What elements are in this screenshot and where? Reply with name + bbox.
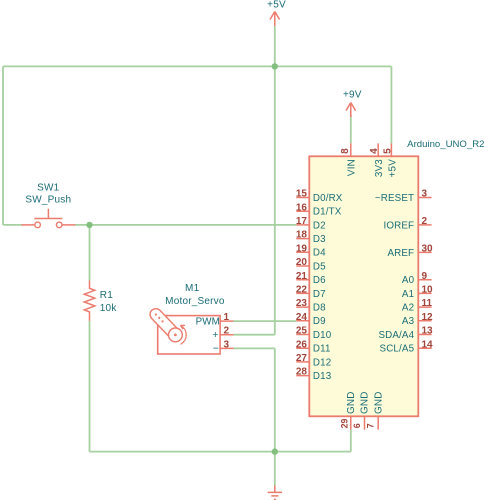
svg-text:3V3: 3V3 (374, 159, 385, 177)
Arduino left pin numbers (296, 189, 308, 378)
wire servo plus horizontal (233, 334, 275, 336)
Arduino right pin stubs (418, 198, 431, 349)
junction node switch/R1 (86, 222, 92, 228)
Arduino right pin names (375, 193, 415, 355)
wire servo PWM to D9 (233, 320, 296, 322)
wire bottom horizontal GND rail (90, 451, 351, 453)
svg-text:D7: D7 (313, 289, 326, 300)
Arduino top pin stubs (351, 143, 392, 156)
svg-text:R1: R1 (100, 290, 113, 301)
svg-text:10k: 10k (100, 303, 118, 314)
power symbol +5V (270, 12, 280, 27)
Arduino right pin numbers (422, 189, 434, 351)
servo M1 Motor_Servo (150, 309, 233, 355)
svg-text:11: 11 (422, 298, 433, 309)
svg-text:4: 4 (369, 148, 380, 154)
svg-text:D11: D11 (313, 344, 331, 355)
Arduino left pin stubs (296, 198, 309, 376)
svg-text:SW1: SW1 (37, 182, 60, 193)
svg-text:A2: A2 (402, 303, 414, 314)
svg-text:D3: D3 (313, 234, 326, 245)
svg-text:16: 16 (296, 202, 308, 213)
svg-text:+5V: +5V (387, 159, 398, 178)
servo icon rotation arc (180, 325, 186, 344)
wire GND rail to ground symbol (274, 452, 276, 487)
IC Arduino_UNO_R2 body (309, 156, 418, 416)
svg-text:−: − (213, 343, 219, 355)
servo icon shaft circle (169, 328, 183, 342)
svg-text:2: 2 (224, 326, 230, 337)
svg-text:D4: D4 (313, 248, 326, 259)
svg-text:D5: D5 (313, 261, 326, 272)
Arduino bottom pin numbers (340, 419, 376, 429)
svg-text:PWM: PWM (196, 317, 220, 328)
svg-text:~RESET: ~RESET (375, 193, 414, 204)
svg-text:14: 14 (422, 339, 434, 350)
svg-text:28: 28 (296, 367, 308, 378)
svg-text:GND: GND (346, 391, 357, 414)
svg-text:29: 29 (340, 419, 350, 429)
power symbol +9V (346, 103, 356, 117)
wire +5V rail to pin 5 (390, 66, 392, 143)
servo pin stubs 1,2,3 (220, 321, 233, 348)
wire +9V to VIN pin 8 (350, 115, 352, 143)
svg-text:D13: D13 (313, 371, 332, 382)
wire junction to R1 top (89, 225, 91, 281)
junction node GND rail (272, 448, 278, 454)
Arduino bottom pin stubs (351, 416, 378, 429)
svg-text:21: 21 (296, 271, 308, 282)
svg-text:GND: GND (360, 391, 371, 414)
wire R1 bottom down (89, 321, 91, 452)
svg-text:9: 9 (422, 271, 428, 282)
svg-text:AREF: AREF (387, 248, 414, 259)
switch SW1 SW_Push (21, 209, 75, 228)
svg-text:GND: GND (373, 391, 384, 414)
Arduino left pin names (313, 193, 343, 382)
svg-text:A3: A3 (402, 316, 415, 327)
svg-text:3: 3 (422, 189, 428, 200)
svg-text:15: 15 (296, 189, 308, 200)
svg-text:5: 5 (382, 148, 393, 154)
svg-text:SCL/A5: SCL/A5 (380, 344, 415, 355)
svg-text:IOREF: IOREF (384, 220, 415, 231)
wire servo minus down to GND rail (274, 348, 276, 451)
Arduino top pin names (347, 159, 399, 178)
wire switch to D2 (75, 224, 296, 226)
svg-text:12: 12 (422, 312, 434, 323)
svg-text:D2: D2 (313, 220, 326, 231)
svg-text:SDA/A4: SDA/A4 (378, 330, 414, 341)
svg-text:D10: D10 (313, 330, 332, 341)
wire +5V symbol stem (274, 26, 276, 66)
svg-text:VIN: VIN (347, 159, 358, 176)
servo icon arm (150, 309, 181, 341)
svg-text:D6: D6 (313, 275, 326, 286)
svg-text:7: 7 (366, 423, 376, 428)
svg-text:8: 8 (340, 148, 351, 154)
wire to switch left pin (3, 224, 22, 226)
wire servo minus horizontal (233, 347, 275, 349)
Arduino top pin numbers (340, 148, 393, 154)
svg-text:2: 2 (422, 216, 428, 227)
svg-text:18: 18 (296, 230, 308, 241)
svg-text:26: 26 (296, 339, 308, 350)
svg-text:Motor_Servo: Motor_Servo (165, 296, 225, 307)
junction node +5V rail (272, 63, 278, 69)
svg-text:A0: A0 (402, 275, 415, 286)
wire +5V vertical to servo plus (274, 66, 276, 334)
svg-text:17: 17 (296, 216, 308, 227)
wire left vertical (2, 66, 4, 225)
ground (268, 486, 282, 500)
svg-text:20: 20 (296, 257, 308, 268)
svg-text:3: 3 (224, 339, 230, 350)
svg-text:+: + (212, 329, 218, 341)
svg-text:Arduino_UNO_R2: Arduino_UNO_R2 (407, 139, 484, 150)
svg-text:D8: D8 (313, 303, 326, 314)
svg-text:6: 6 (352, 423, 362, 428)
svg-text:D12: D12 (313, 357, 331, 368)
wire GND pin 29 drop (350, 430, 352, 452)
svg-text:30: 30 (422, 244, 434, 255)
svg-text:+5V: +5V (267, 0, 286, 10)
svg-text:13: 13 (422, 326, 434, 337)
svg-text:A1: A1 (402, 289, 414, 300)
svg-text:10: 10 (422, 285, 434, 296)
svg-text:SW_Push: SW_Push (25, 195, 71, 206)
svg-text:19: 19 (296, 243, 308, 254)
svg-text:22: 22 (296, 285, 308, 296)
svg-text:27: 27 (296, 353, 308, 364)
wire top horizontal +5V rail (3, 65, 391, 67)
svg-text:D0/RX: D0/RX (313, 193, 343, 204)
svg-text:23: 23 (296, 298, 308, 309)
Arduino bottom pin names (346, 391, 384, 414)
svg-text:25: 25 (296, 326, 308, 337)
resistor R1 10k (84, 281, 95, 321)
servo icon arm dots (155, 313, 157, 315)
svg-text:D1/TX: D1/TX (313, 207, 342, 218)
svg-text:24: 24 (296, 312, 308, 323)
svg-text:M1: M1 (185, 283, 200, 294)
svg-text:D9: D9 (313, 316, 326, 327)
svg-text:+9V: +9V (343, 90, 362, 101)
svg-text:1: 1 (224, 312, 230, 323)
